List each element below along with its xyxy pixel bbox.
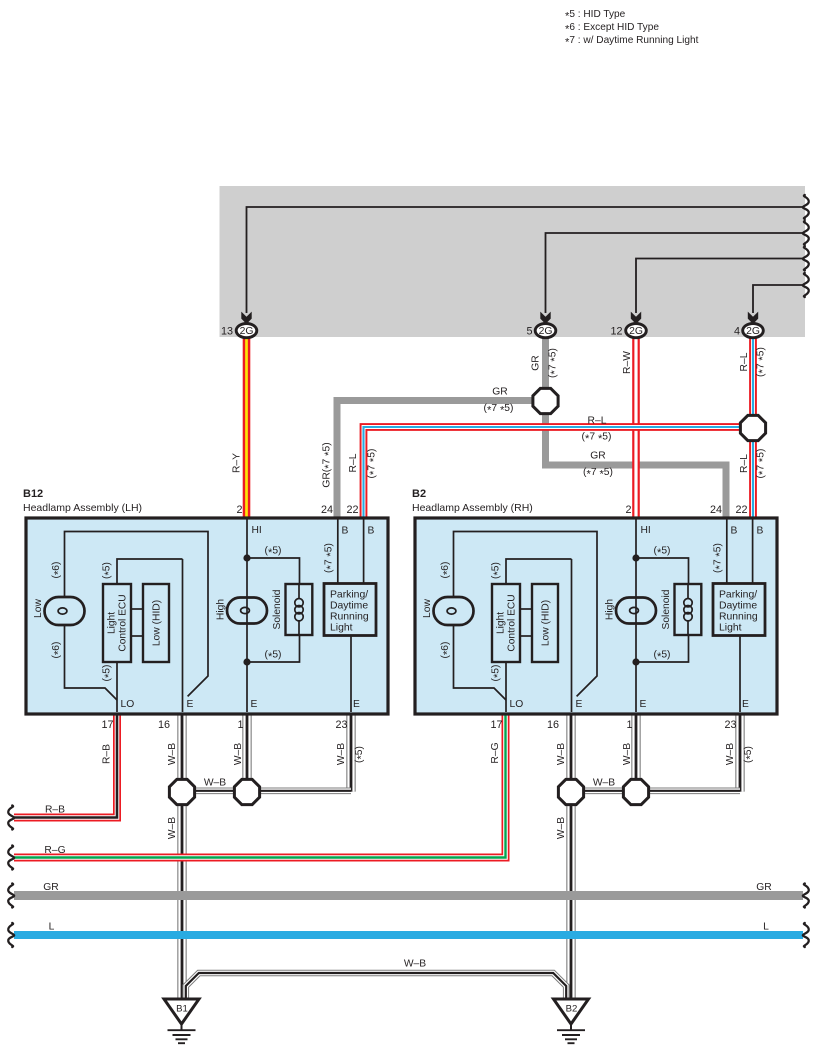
light control ECU box (B2) xyxy=(492,584,520,662)
wire B pin to parking light (B12) xyxy=(363,519,365,584)
wire low beam loop (B2) xyxy=(454,532,598,697)
junction node (B2) xyxy=(632,658,639,665)
junction node (B2) xyxy=(632,554,639,561)
connector 2G pin 5 xyxy=(526,312,555,338)
svg-text:Parking/: Parking/ xyxy=(330,590,368,601)
break mark xyxy=(803,195,809,219)
svg-text:2G: 2G xyxy=(629,326,643,337)
wire R-B from LH pin 17 xyxy=(14,712,117,818)
svg-text:Control ECU: Control ECU xyxy=(118,594,129,651)
light control ECU box (B12) xyxy=(103,584,131,662)
wire solenoid upper branch (B12) xyxy=(247,558,300,584)
svg-text:HI: HI xyxy=(641,525,651,536)
svg-text:W–B: W–B xyxy=(622,743,633,765)
wire GR from 2G pin 5 through junction to LH pin 24 and RH pin 24 xyxy=(546,336,727,520)
wire ECU to HID link (B12) xyxy=(131,635,143,637)
wire R-W from 2G pin 12 to RH pin 2 xyxy=(632,336,640,520)
wire R-Y from 2G pin 13 to LH pin 2 xyxy=(243,336,251,520)
svg-text:E: E xyxy=(187,699,194,710)
svg-text:W–B: W–B xyxy=(167,817,178,839)
break mark xyxy=(803,221,809,245)
svg-text:16: 16 xyxy=(158,719,170,731)
svg-text:R–L: R–L xyxy=(739,454,750,473)
connector 2G pin 4 xyxy=(734,312,763,338)
feed wire to pin 12 xyxy=(636,259,803,314)
wire GR branch to LH pin 24 xyxy=(337,401,548,521)
svg-text:R–W: R–W xyxy=(622,351,633,374)
svg-text:GR: GR xyxy=(43,882,58,893)
wire ECU top branch (B12) xyxy=(117,559,183,584)
svg-text:W–B: W–B xyxy=(556,817,567,839)
junction J3 (W-B LH) xyxy=(169,779,194,804)
junction J5 (W-B RH) xyxy=(558,779,583,804)
svg-text:W–B: W–B xyxy=(204,778,226,789)
low beam bulb (B12) xyxy=(45,597,85,625)
svg-text:E: E xyxy=(742,699,749,710)
break mark xyxy=(8,884,14,908)
wire parking light to E pin 23 (B2) xyxy=(739,636,741,713)
svg-text:W–B: W–B xyxy=(725,743,736,765)
junction J6 (W-B RH) xyxy=(623,779,648,804)
wire W-B from RH pin 16 to ground B2 xyxy=(566,712,575,999)
wire ECU to HID link (B2) xyxy=(520,608,532,610)
svg-text:1: 1 xyxy=(237,719,243,731)
wire HI pin to E pin 1 (B2) xyxy=(635,519,637,712)
svg-text:LO: LO xyxy=(121,699,135,710)
svg-text:B2: B2 xyxy=(412,488,426,500)
wire W-B from LH pin 1 to junction xyxy=(242,712,251,792)
svg-text:W–B: W–B xyxy=(404,959,426,970)
headlamp B12 box border xyxy=(26,518,388,714)
break mark xyxy=(803,923,809,947)
svg-text:E: E xyxy=(353,699,360,710)
svg-text:E: E xyxy=(576,699,583,710)
headlamp assembly B12 box fill xyxy=(26,518,388,714)
svg-text:Daytime: Daytime xyxy=(719,601,757,612)
svg-text:R–L: R–L xyxy=(348,453,359,472)
svg-text:W–B: W–B xyxy=(593,778,615,789)
svg-text:L: L xyxy=(763,922,769,933)
ground point B1 xyxy=(164,999,199,1043)
svg-text:Running: Running xyxy=(719,612,758,623)
wire W-B link between RH junctions xyxy=(571,787,636,794)
svg-text:R–B: R–B xyxy=(45,805,65,816)
svg-text:B: B xyxy=(757,526,764,537)
svg-text:2G: 2G xyxy=(539,326,553,337)
svg-text:Running: Running xyxy=(330,612,369,623)
svg-text:16: 16 xyxy=(547,719,559,731)
wire W-B from RH pin 1 to junction xyxy=(631,712,640,792)
svg-text:Parking/: Parking/ xyxy=(719,590,757,601)
junction node (B12) xyxy=(243,658,250,665)
low beam bulb (B2) xyxy=(434,597,474,625)
svg-text:R–L: R–L xyxy=(739,352,750,371)
wire B pin to parking light (B12) xyxy=(337,519,339,584)
svg-text:GR: GR xyxy=(492,387,507,398)
junction node (B12) xyxy=(243,554,250,561)
wire W-B from RH pin 23 to junction xyxy=(735,712,744,792)
svg-text:Light: Light xyxy=(330,623,353,634)
feed wire to pin 4 xyxy=(753,285,803,313)
parking/daytime running light unit (B12) xyxy=(324,584,376,636)
svg-text:GR: GR xyxy=(756,882,771,893)
svg-text:L: L xyxy=(49,922,55,933)
svg-text:22: 22 xyxy=(346,504,358,516)
svg-text:Low: Low xyxy=(422,598,433,617)
connector 2G pin 13 xyxy=(221,312,257,338)
wire HI pin to E pin 1 (B12) xyxy=(246,519,248,712)
parking/daytime running light unit (B2) xyxy=(713,584,765,636)
svg-text:Low (HID): Low (HID) xyxy=(152,600,163,646)
wire ECU to HID link (B12) xyxy=(131,608,143,610)
svg-text:2: 2 xyxy=(625,504,631,516)
break mark xyxy=(803,247,809,271)
low HID box (B12) xyxy=(143,584,169,662)
svg-text:2G: 2G xyxy=(240,326,254,337)
svg-text:17: 17 xyxy=(101,719,113,731)
label Light Control ECU (B12) xyxy=(107,594,129,651)
wire GR bus at bottom xyxy=(14,891,803,900)
svg-text:High: High xyxy=(216,599,227,620)
wire W-B pin 23 horizontal to junction RH xyxy=(629,787,740,794)
svg-text:Headlamp Assembly (RH): Headlamp Assembly (RH) xyxy=(412,502,533,514)
ground point B2 xyxy=(554,999,589,1043)
svg-text:R–B: R–B xyxy=(102,744,113,764)
svg-text:5: 5 xyxy=(526,326,532,338)
wire R-L branch to LH pin 22 xyxy=(364,427,754,520)
svg-text:B1: B1 xyxy=(176,1004,188,1015)
wire solenoid lower branch (B2) xyxy=(636,635,689,662)
svg-text:Light: Light xyxy=(496,612,507,634)
wire L bus at bottom xyxy=(14,931,803,939)
svg-text:Light: Light xyxy=(719,623,742,634)
high beam bulb (B2) xyxy=(616,598,656,624)
wire W-B ground link B1-B2 xyxy=(186,973,566,999)
wire low beam bulb to LO pin (B2) xyxy=(454,625,507,700)
svg-text:2G: 2G xyxy=(746,326,760,337)
break mark xyxy=(8,806,14,830)
junction J2 (R-L) xyxy=(740,415,765,440)
svg-text:23: 23 xyxy=(335,719,347,731)
svg-text:HI: HI xyxy=(252,525,262,536)
wire ECU top branch (B2) xyxy=(506,559,572,584)
svg-text:1: 1 xyxy=(626,719,632,731)
svg-text:W–B: W–B xyxy=(336,743,347,765)
svg-text:24: 24 xyxy=(710,504,722,516)
wire W-B from LH pin 16 to ground B1 xyxy=(177,712,186,999)
svg-text:13: 13 xyxy=(221,326,233,338)
svg-text:Daytime: Daytime xyxy=(330,601,368,612)
svg-text:R–G: R–G xyxy=(44,845,65,856)
wire B pin to parking light (B2) xyxy=(726,519,728,584)
wire B pin to parking light (B2) xyxy=(752,519,754,584)
svg-text:Solenoid: Solenoid xyxy=(661,589,672,629)
break mark xyxy=(803,884,809,908)
svg-text:Control ECU: Control ECU xyxy=(507,594,518,651)
svg-text:4: 4 xyxy=(734,326,740,338)
svg-text:B12: B12 xyxy=(23,488,43,500)
wire solenoid upper branch (B2) xyxy=(636,558,689,584)
svg-text:Headlamp Assembly (LH): Headlamp Assembly (LH) xyxy=(23,502,142,514)
svg-text:High: High xyxy=(605,599,616,620)
feed wire to pin 5 xyxy=(546,233,804,313)
svg-text:W–B: W–B xyxy=(556,743,567,765)
svg-text:2: 2 xyxy=(236,504,242,516)
svg-text:B: B xyxy=(368,526,375,537)
wire R-G from RH pin 17 xyxy=(14,712,506,858)
solenoid (B12) xyxy=(286,584,313,635)
wire solenoid lower branch (B12) xyxy=(247,635,300,662)
break mark xyxy=(8,923,14,947)
svg-text:E: E xyxy=(640,699,647,710)
svg-text:W–B: W–B xyxy=(233,743,244,765)
wire to E pin 16 (B12) xyxy=(182,559,184,712)
connector 2G pin 12 xyxy=(610,312,646,338)
svg-text:22: 22 xyxy=(735,504,747,516)
wire R-L from 2G pin 4 to RH pin 22 xyxy=(749,336,757,520)
wire parking light to E pin 23 (B12) xyxy=(350,636,352,713)
wire ECU to LO pin (B2) xyxy=(505,662,507,712)
wire W-B from LH pin 23 to junction xyxy=(346,712,355,792)
svg-text:17: 17 xyxy=(490,719,502,731)
svg-text:B2: B2 xyxy=(566,1004,578,1015)
svg-text:B: B xyxy=(342,526,349,537)
svg-text:R–G: R–G xyxy=(490,742,501,763)
solenoid (B2) xyxy=(675,584,702,635)
break mark xyxy=(803,273,809,297)
svg-text:12: 12 xyxy=(610,326,622,338)
svg-text:E: E xyxy=(251,699,258,710)
svg-text:LO: LO xyxy=(510,699,524,710)
junction connector bus block xyxy=(220,186,806,337)
svg-text:Low (HID): Low (HID) xyxy=(541,600,552,646)
svg-text:GR: GR xyxy=(531,355,542,370)
feed wire to pin 13 xyxy=(247,207,804,313)
svg-text:B: B xyxy=(731,526,738,537)
low HID box (B2) xyxy=(532,584,558,662)
headlamp assembly B2 box fill xyxy=(415,518,777,714)
svg-text:Solenoid: Solenoid xyxy=(272,589,283,629)
wire ECU to LO pin (B12) xyxy=(116,662,118,712)
wire to E pin 16 (B2) xyxy=(571,559,573,712)
svg-text:W–B: W–B xyxy=(167,743,178,765)
svg-text:23: 23 xyxy=(724,719,736,731)
junction J4 (W-B LH) xyxy=(234,779,259,804)
svg-text:24: 24 xyxy=(321,504,333,516)
wire W-B pin 23 horizontal to junction xyxy=(240,787,351,794)
svg-text:R–Y: R–Y xyxy=(232,453,243,473)
label Light Control ECU (B2) xyxy=(496,594,518,651)
svg-text:Light: Light xyxy=(107,612,118,634)
svg-text:R–L: R–L xyxy=(588,416,607,427)
headlamp B2 box border xyxy=(415,518,777,714)
wire low beam bulb to LO pin (B12) xyxy=(65,625,118,700)
svg-text:Low: Low xyxy=(33,598,44,617)
svg-text:GR: GR xyxy=(590,451,605,462)
high beam bulb (B12) xyxy=(227,598,267,624)
wire low beam loop (B12) xyxy=(65,532,209,697)
wire W-B link between LH junctions xyxy=(182,787,247,794)
break mark xyxy=(8,846,14,870)
junction J1 (GR) xyxy=(533,388,558,413)
wire ECU to HID link (B2) xyxy=(520,635,532,637)
